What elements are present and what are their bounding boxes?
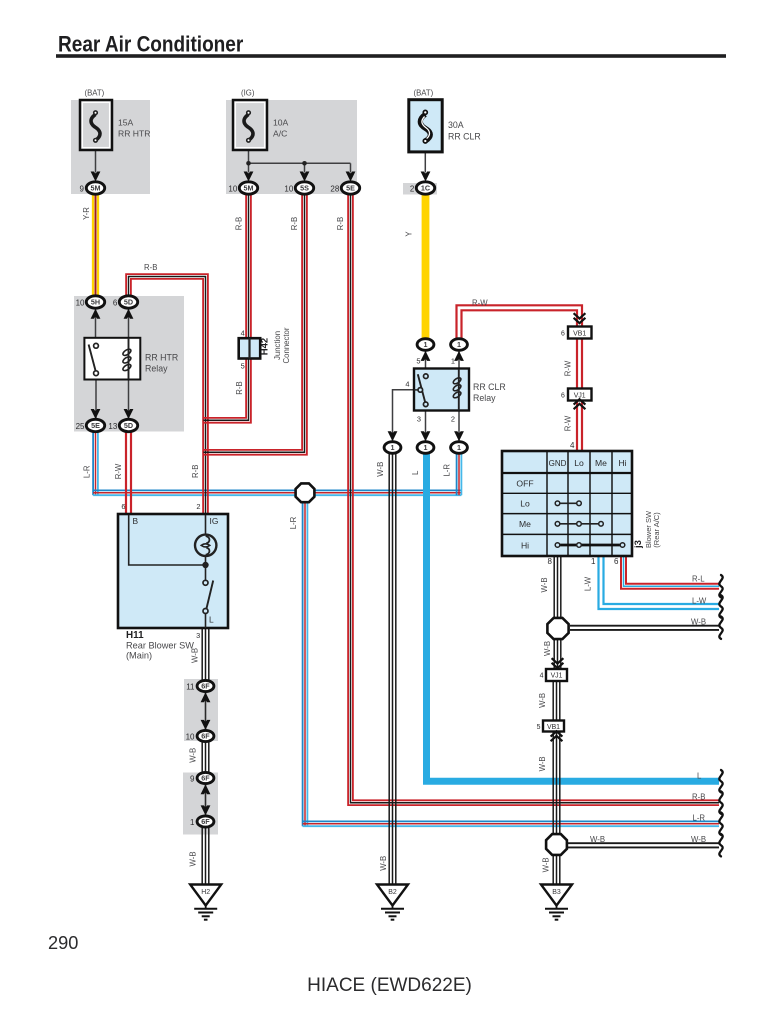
svg-text:3: 3	[417, 414, 421, 423]
svg-text:13: 13	[108, 422, 117, 431]
svg-text:Relay: Relay	[145, 364, 168, 374]
svg-text:W-B: W-B	[538, 693, 547, 708]
svg-text:L: L	[411, 470, 420, 475]
svg-text:W-B: W-B	[691, 835, 706, 844]
svg-text:5: 5	[537, 724, 541, 731]
svg-text:A/C: A/C	[273, 129, 287, 139]
svg-text:j3: j3	[633, 540, 644, 549]
svg-text:Rear Blower SW: Rear Blower SW	[126, 641, 194, 651]
svg-text:OFF: OFF	[516, 479, 533, 489]
svg-text:11: 11	[186, 682, 195, 691]
svg-text:W-B: W-B	[691, 617, 706, 626]
svg-text:W-B: W-B	[590, 835, 605, 844]
svg-text:1C: 1C	[421, 184, 430, 193]
svg-text:10: 10	[186, 732, 195, 741]
svg-text:B3: B3	[552, 889, 561, 896]
svg-text:8: 8	[548, 557, 553, 566]
svg-text:R-W: R-W	[472, 299, 488, 308]
svg-text:RR HTR: RR HTR	[145, 353, 178, 363]
svg-text:(BAT): (BAT)	[85, 89, 105, 98]
svg-text:R-W: R-W	[114, 463, 123, 479]
svg-text:25: 25	[76, 422, 85, 431]
svg-text:1: 1	[190, 818, 195, 827]
svg-text:RR CLR: RR CLR	[473, 382, 506, 392]
svg-text:10: 10	[284, 184, 293, 193]
svg-text:Junction: Junction	[273, 331, 282, 360]
svg-text:10: 10	[76, 298, 85, 307]
svg-text:L-W: L-W	[584, 576, 593, 591]
svg-text:6F: 6F	[201, 682, 210, 691]
svg-text:5S: 5S	[300, 184, 309, 193]
svg-text:VJ1: VJ1	[574, 392, 586, 399]
svg-text:R-B: R-B	[235, 381, 244, 394]
svg-text:6F: 6F	[201, 774, 210, 783]
svg-text:10: 10	[228, 184, 237, 193]
svg-text:L-R: L-R	[289, 516, 298, 529]
svg-text:R-B: R-B	[144, 263, 157, 272]
svg-text:W-B: W-B	[376, 462, 385, 477]
svg-text:5E: 5E	[91, 421, 100, 430]
svg-text:Lo: Lo	[574, 458, 584, 468]
svg-text:Me: Me	[595, 458, 607, 468]
svg-text:R-L: R-L	[692, 574, 705, 583]
svg-text:R-B: R-B	[191, 465, 200, 478]
svg-text:Rear Air Conditioner: Rear Air Conditioner	[58, 32, 243, 57]
svg-text:L-R: L-R	[83, 465, 92, 478]
svg-text:RR HTR: RR HTR	[118, 129, 150, 139]
svg-text:Hi: Hi	[521, 541, 529, 551]
svg-text:4: 4	[570, 441, 575, 450]
svg-text:5D: 5D	[124, 421, 133, 430]
svg-text:1: 1	[457, 340, 461, 349]
svg-text:1: 1	[424, 340, 428, 349]
svg-text:B2: B2	[388, 889, 397, 896]
svg-text:290: 290	[48, 933, 78, 953]
svg-text:2: 2	[451, 414, 455, 423]
svg-text:6F: 6F	[201, 817, 210, 826]
svg-text:Y-R: Y-R	[82, 207, 91, 220]
svg-text:1: 1	[591, 557, 596, 566]
svg-text:5H: 5H	[91, 298, 100, 307]
svg-text:6F: 6F	[201, 732, 210, 741]
svg-text:(IG): (IG)	[241, 89, 255, 98]
svg-text:(BAT): (BAT)	[414, 88, 434, 97]
svg-text:15A: 15A	[118, 118, 134, 128]
svg-text:Hi: Hi	[618, 458, 626, 468]
svg-text:R-W: R-W	[563, 360, 572, 376]
svg-text:W-B: W-B	[538, 756, 547, 771]
svg-text:6: 6	[121, 502, 125, 511]
svg-text:L: L	[209, 615, 214, 625]
svg-text:1: 1	[457, 443, 461, 452]
svg-text:30A: 30A	[448, 120, 464, 130]
svg-text:RR CLR: RR CLR	[448, 132, 481, 142]
svg-text:GND: GND	[549, 459, 567, 468]
svg-text:5M: 5M	[91, 184, 101, 193]
svg-text:4: 4	[241, 329, 245, 338]
svg-text:Connector: Connector	[282, 327, 291, 363]
svg-text:VB1: VB1	[547, 724, 560, 731]
svg-text:Relay: Relay	[473, 393, 496, 403]
svg-text:R-W: R-W	[563, 415, 572, 431]
svg-text:6: 6	[561, 330, 565, 337]
svg-text:10A: 10A	[273, 118, 289, 128]
svg-text:1: 1	[451, 357, 455, 366]
svg-text:W-B: W-B	[541, 857, 550, 872]
svg-text:W-B: W-B	[189, 851, 198, 866]
svg-text:(Rear A/C): (Rear A/C)	[652, 512, 661, 548]
svg-text:R-B: R-B	[235, 217, 244, 230]
svg-text:Me: Me	[519, 519, 531, 529]
svg-text:HIACE (EWD622E): HIACE (EWD622E)	[307, 975, 472, 996]
svg-text:28: 28	[330, 184, 339, 193]
svg-text:5D: 5D	[124, 298, 133, 307]
svg-text:B: B	[133, 516, 139, 526]
svg-text:R-B: R-B	[290, 217, 299, 230]
svg-text:9: 9	[80, 184, 85, 193]
svg-text:H2: H2	[201, 889, 210, 896]
svg-text:6: 6	[561, 392, 565, 399]
svg-text:VJ1: VJ1	[551, 673, 563, 680]
svg-text:R-B: R-B	[336, 217, 345, 230]
svg-text:(Main): (Main)	[126, 651, 152, 661]
svg-text:2: 2	[196, 502, 200, 511]
svg-text:L: L	[697, 771, 702, 780]
svg-text:W-B: W-B	[540, 577, 549, 592]
svg-text:5E: 5E	[346, 184, 355, 193]
svg-text:W-B: W-B	[379, 856, 388, 871]
svg-text:IG: IG	[210, 516, 219, 526]
svg-text:1: 1	[391, 443, 395, 452]
svg-text:5: 5	[241, 362, 245, 371]
svg-text:4: 4	[405, 380, 409, 389]
svg-text:6: 6	[113, 298, 118, 307]
svg-text:H42: H42	[260, 338, 271, 355]
svg-text:4: 4	[540, 673, 544, 680]
svg-text:W-B: W-B	[189, 748, 198, 763]
svg-text:R-B: R-B	[692, 792, 705, 801]
svg-text:Y: Y	[405, 231, 414, 237]
svg-text:2: 2	[410, 184, 415, 193]
svg-text:5: 5	[416, 357, 420, 366]
svg-text:5M: 5M	[244, 184, 254, 193]
svg-text:3: 3	[196, 631, 200, 640]
svg-text:Lo: Lo	[520, 499, 530, 509]
svg-text:L-R: L-R	[693, 814, 706, 823]
svg-text:L-W: L-W	[692, 596, 707, 605]
svg-text:H11: H11	[126, 630, 144, 641]
svg-text:VB1: VB1	[573, 330, 586, 337]
svg-text:W-B: W-B	[190, 648, 199, 663]
svg-text:1: 1	[424, 443, 428, 452]
svg-text:W-B: W-B	[543, 641, 552, 656]
svg-text:6: 6	[614, 557, 619, 566]
svg-text:L-R: L-R	[443, 464, 452, 477]
svg-text:9: 9	[190, 774, 195, 783]
